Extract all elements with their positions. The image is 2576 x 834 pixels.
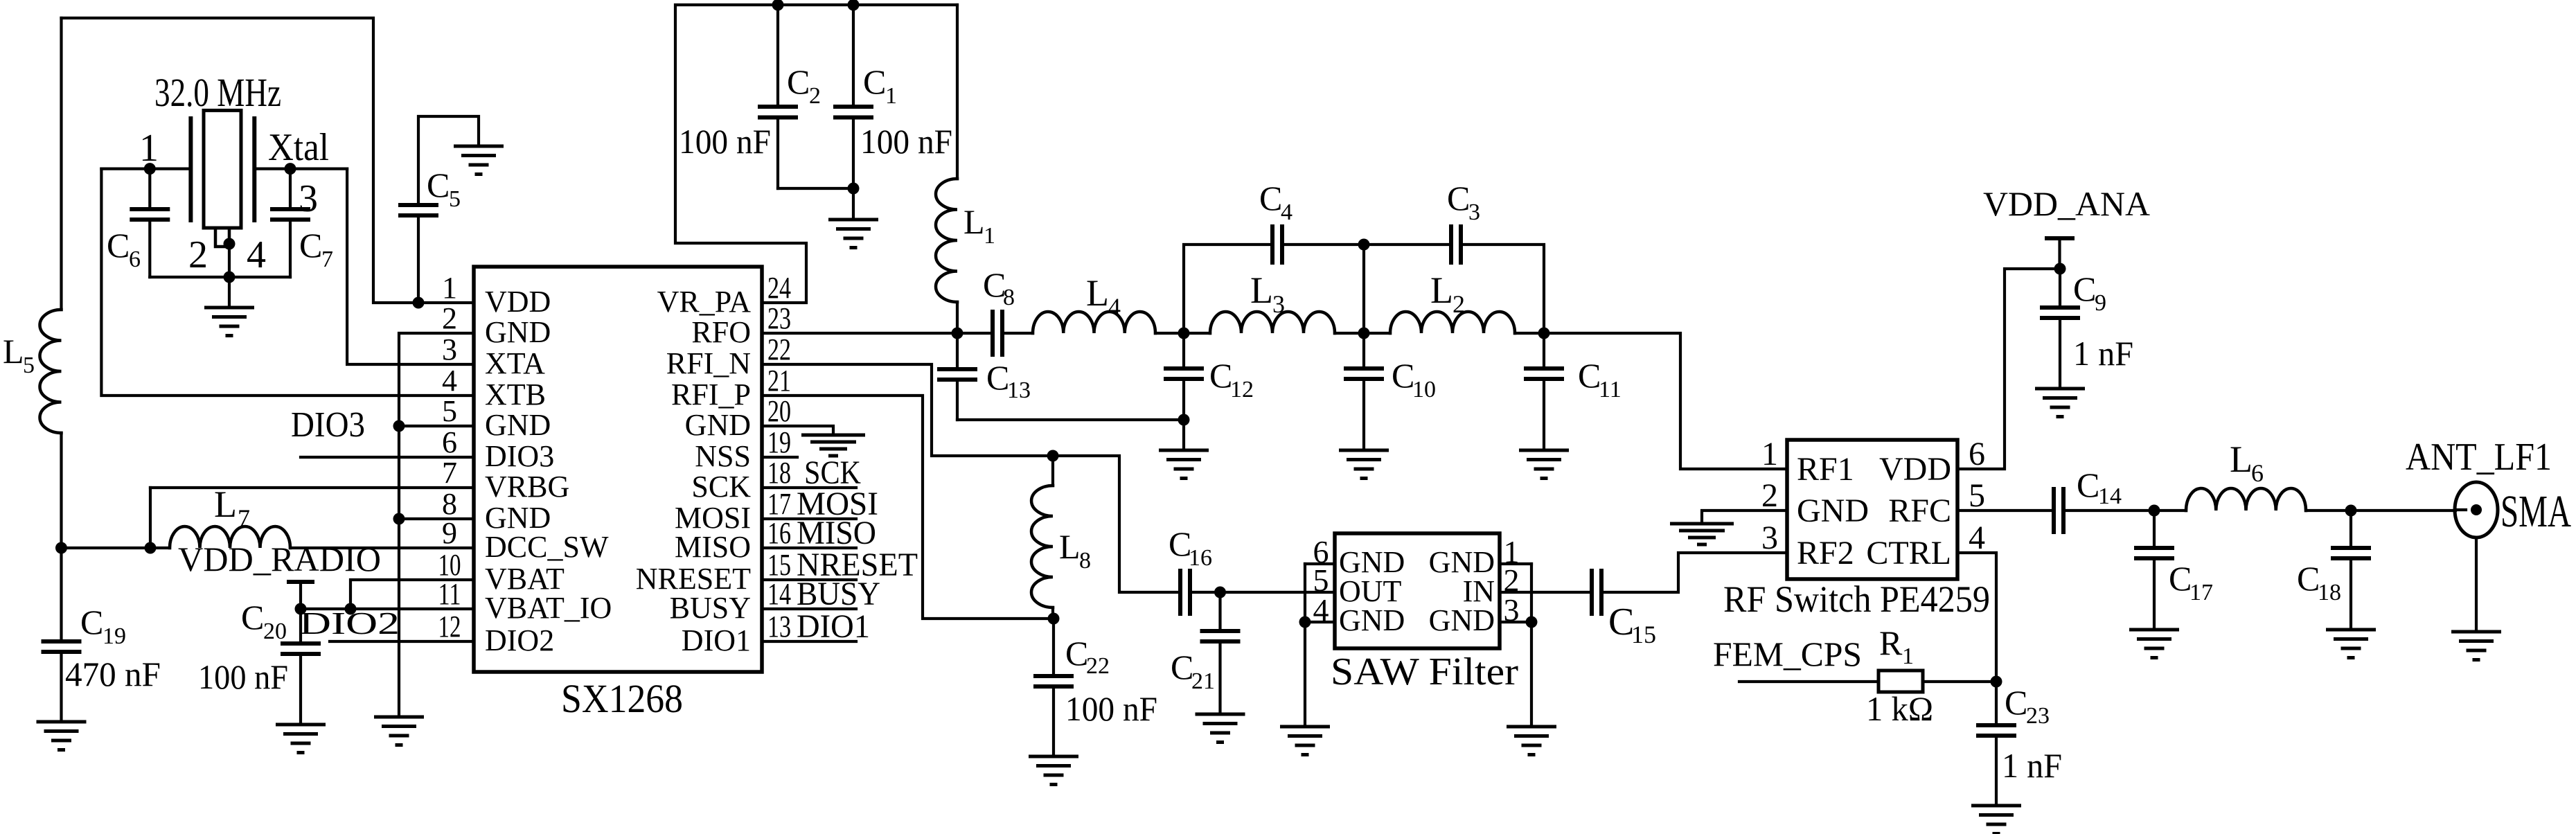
svg-text:SCK: SCK <box>691 470 751 504</box>
capacitor C23 1 nF <box>1995 682 1998 725</box>
wire VBAT pin 10 <box>350 580 474 609</box>
junction node B <box>1358 328 1370 339</box>
svg-text:100 nF: 100 nF <box>198 657 288 696</box>
svg-text:8: 8 <box>1079 548 1091 574</box>
capacitor C17 <box>2153 511 2156 547</box>
svg-text:18: 18 <box>767 456 791 490</box>
wire SCK stub <box>762 486 856 489</box>
svg-text:C: C <box>107 226 130 265</box>
svg-text:21: 21 <box>767 364 791 398</box>
svg-text:9: 9 <box>442 516 457 550</box>
svg-text:2: 2 <box>442 301 457 335</box>
svg-text:XTA: XTA <box>485 346 545 380</box>
wire FEM_CPS <box>1739 680 1877 683</box>
svg-text:DIO1: DIO1 <box>682 623 751 657</box>
crystal X1 node 3 wire <box>254 168 347 170</box>
svg-text:RFC: RFC <box>1888 493 1951 529</box>
svg-text:ANT_LF1: ANT_LF1 <box>2406 436 2552 479</box>
svg-text:19: 19 <box>767 425 791 459</box>
wire VDD top loop from L5 to chip pin 1 <box>62 18 474 303</box>
svg-text:3: 3 <box>1272 290 1285 318</box>
capacitor C1 100 nF <box>852 5 855 106</box>
capacitor C10 <box>1362 333 1365 368</box>
junction GND bus pin5 <box>393 420 405 432</box>
svg-text:14: 14 <box>767 577 791 611</box>
svg-text:GND: GND <box>685 408 751 442</box>
svg-text:DCC_SW: DCC_SW <box>485 530 609 564</box>
wire SAW left ground <box>1304 622 1306 727</box>
wire C16 to SAW OUT pin 5 <box>1190 591 1335 594</box>
ground under C19 <box>37 722 87 750</box>
wire to crystal ground <box>228 277 231 308</box>
svg-text:C: C <box>1209 356 1232 395</box>
junction C2 top <box>772 0 784 11</box>
svg-text:C: C <box>2073 269 2096 308</box>
ground under C17 <box>2129 630 2179 658</box>
svg-text:15: 15 <box>1631 621 1656 648</box>
wire L6 to antenna <box>2306 509 2455 512</box>
svg-text:VBAT_IO: VBAT_IO <box>485 591 612 625</box>
wire L3 to node B <box>1335 332 1390 335</box>
svg-text:3: 3 <box>1504 592 1520 628</box>
wire GND pin 20 stub <box>762 426 833 434</box>
svg-text:4: 4 <box>442 364 457 398</box>
ground at C5 <box>454 146 504 175</box>
ground under C11 <box>1519 450 1569 479</box>
svg-text:L: L <box>963 202 985 241</box>
junction node B top <box>1358 239 1370 251</box>
svg-text:11: 11 <box>438 577 461 611</box>
junction node A <box>1178 328 1190 339</box>
svg-text:5: 5 <box>449 186 461 212</box>
wire RFO pin 23 <box>762 332 993 335</box>
svg-text:BUSY: BUSY <box>670 591 751 625</box>
svg-text:1 nF: 1 nF <box>2073 334 2133 373</box>
ground under crystal <box>204 308 254 336</box>
wire L2 to node C and RF1 <box>1515 333 1787 469</box>
svg-text:RF1: RF1 <box>1797 451 1854 488</box>
svg-text:C: C <box>2077 465 2099 504</box>
svg-text:1 kΩ: 1 kΩ <box>1866 689 1933 728</box>
junction node C <box>1538 328 1550 339</box>
svg-text:VDD: VDD <box>485 285 551 319</box>
capacitor C16 <box>1180 569 1190 616</box>
wire SMA to ground <box>2475 538 2478 631</box>
capacitor C14 <box>2054 487 2063 534</box>
svg-text:GND: GND <box>485 408 551 442</box>
svg-text:23: 23 <box>767 301 791 335</box>
SAW pin 4 stub <box>1305 621 1335 623</box>
svg-text:5: 5 <box>442 394 457 428</box>
junction rail/VRBG <box>145 542 157 554</box>
wire node B up <box>1362 245 1365 333</box>
svg-text:C: C <box>2005 683 2027 722</box>
svg-text:1: 1 <box>139 127 159 170</box>
svg-text:9: 9 <box>2095 290 2106 316</box>
wire VDD_RADIO rail left <box>62 547 170 549</box>
capacitor C22 100 nF <box>1052 619 1055 675</box>
junction VBAT/VBAT_IO <box>345 603 357 615</box>
svg-text:4: 4 <box>1281 199 1293 225</box>
junction C1 bottom <box>848 183 860 195</box>
SAW right bracket <box>1530 564 1533 622</box>
power tap VDD_RADIO bar <box>289 580 312 584</box>
capacitor C12 <box>1182 333 1185 368</box>
svg-text:5: 5 <box>23 353 35 378</box>
svg-text:C: C <box>1171 648 1193 686</box>
wire node A up to C4 <box>1184 245 1272 333</box>
wire pin5 GND stub <box>399 425 474 427</box>
SAW pin 6 stub <box>1305 562 1335 565</box>
capacitor C6 <box>148 169 151 208</box>
svg-text:BUSY: BUSY <box>797 576 880 612</box>
capacitor C5 <box>417 216 420 303</box>
capacitor C20 100 nF <box>299 609 302 643</box>
connector ANT_LF1 SMA <box>2455 482 2498 538</box>
wire SAW IN pin 2 <box>1500 591 1592 594</box>
svg-text:L: L <box>1250 269 1273 311</box>
svg-text:C: C <box>787 62 810 101</box>
svg-text:3: 3 <box>1761 520 1778 556</box>
junction GND bus pin8 <box>393 513 405 525</box>
wire VRBG to VDD_RADIO rail <box>149 488 152 548</box>
svg-text:100 nF: 100 nF <box>679 122 771 161</box>
ground under C20 <box>276 725 326 753</box>
svg-text:GND: GND <box>1797 493 1869 529</box>
svg-text:2: 2 <box>1761 477 1778 514</box>
junction C20 node <box>295 603 307 615</box>
svg-text:8: 8 <box>1003 285 1015 310</box>
wire MISO stub <box>762 547 856 549</box>
SAW left bracket <box>1304 564 1306 622</box>
junction case/ground <box>224 272 236 283</box>
capacitor C7 <box>289 169 292 208</box>
inductor L6 <box>2186 488 2306 511</box>
svg-text:C: C <box>427 166 450 204</box>
svg-text:32.0 MHz: 32.0 MHz <box>154 70 281 115</box>
svg-text:GND: GND <box>1429 603 1495 637</box>
svg-text:DIO2: DIO2 <box>299 605 400 641</box>
svg-text:SX1268: SX1268 <box>561 676 683 721</box>
junction L8 top <box>1047 450 1059 462</box>
wire R1 to CTRL node <box>1923 680 1996 683</box>
svg-text:100 nF: 100 nF <box>1065 689 1157 728</box>
svg-text:4: 4 <box>1108 293 1121 321</box>
wire SAW right ground <box>1530 622 1533 727</box>
svg-text:C: C <box>1447 179 1470 218</box>
svg-text:C: C <box>2297 559 2320 598</box>
wire C3 to node C <box>1461 245 1544 333</box>
svg-text:12: 12 <box>438 610 461 644</box>
svg-text:C: C <box>1065 634 1088 673</box>
svg-text:1: 1 <box>1761 436 1778 472</box>
svg-text:RF Switch PE4259: RF Switch PE4259 <box>1723 578 1990 620</box>
inductor L5 <box>39 310 61 433</box>
wire RFI_P pin 21 to L8 bottom <box>762 396 1054 619</box>
crystal X1 32.0 MHz <box>190 116 254 222</box>
svg-text:2: 2 <box>809 83 821 109</box>
wire NRESET stub <box>762 578 856 581</box>
capacitor C15 <box>1592 569 1601 616</box>
wire U3 VDD pin 6 <box>1957 269 2060 469</box>
svg-text:17: 17 <box>2189 580 2213 605</box>
svg-text:4: 4 <box>247 233 266 276</box>
wire U3 RFC pin 5 <box>1957 509 2054 512</box>
svg-text:2: 2 <box>1453 290 1465 318</box>
wire GND bus pins 2/5/8 <box>399 333 474 717</box>
junction C12 bottom <box>1178 414 1190 426</box>
svg-text:L: L <box>214 483 237 525</box>
crystal case junction <box>224 238 236 250</box>
capacitor C13 <box>956 333 959 369</box>
capacitor C11 <box>1543 333 1545 368</box>
wire node3 to XTA pin 3 <box>347 169 474 364</box>
resistor R1 1 kOhm <box>1878 671 1923 692</box>
junction L8 bottom <box>1048 613 1060 625</box>
svg-text:DIO3: DIO3 <box>485 439 554 473</box>
svg-text:14: 14 <box>2098 483 2122 509</box>
svg-text:5: 5 <box>1969 477 1985 514</box>
svg-text:DIO3: DIO3 <box>291 405 365 445</box>
wire node1 to XTB pin 4 <box>101 169 474 396</box>
svg-text:100 nF: 100 nF <box>860 122 952 161</box>
capacitor C9 1 nF <box>2059 269 2061 307</box>
inductor L4 <box>1033 312 1155 333</box>
svg-text:GND: GND <box>485 315 551 349</box>
svg-text:7: 7 <box>442 456 457 490</box>
svg-text:SAW Filter: SAW Filter <box>1331 650 1518 693</box>
svg-text:DIO2: DIO2 <box>485 623 554 657</box>
RF switch U3 PE4259 body <box>1787 440 1957 579</box>
ground at pin 20 <box>801 435 865 456</box>
wire C4 to C3 <box>1282 243 1451 246</box>
wire MOSI stub <box>762 517 856 520</box>
crystal X1 node 1 wire <box>101 168 190 170</box>
svg-text:VDD: VDD <box>1879 451 1951 488</box>
ground under C12 <box>1159 450 1209 479</box>
crystal pin 2/4 case tab <box>215 228 229 247</box>
svg-text:18: 18 <box>2318 580 2341 605</box>
junction VDD_ANA node <box>2054 263 2066 275</box>
svg-text:22: 22 <box>1086 653 1110 679</box>
svg-text:VDD_ANA: VDD_ANA <box>1983 184 2150 223</box>
svg-text:3: 3 <box>1468 199 1480 225</box>
svg-text:1: 1 <box>984 223 995 249</box>
svg-text:L: L <box>2230 438 2253 480</box>
svg-text:MISO: MISO <box>675 530 751 564</box>
wire VRBG pin 7 <box>150 486 474 489</box>
svg-text:C: C <box>80 603 103 641</box>
capacitor C21 <box>1218 592 1221 630</box>
svg-text:11: 11 <box>1599 377 1622 402</box>
svg-text:1 nF: 1 nF <box>2002 746 2062 785</box>
wire NSS pin 19 stub <box>762 456 797 459</box>
wire VR_PA pin 24 to top rail <box>675 5 957 303</box>
svg-text:6: 6 <box>442 425 457 459</box>
svg-text:21: 21 <box>1191 668 1215 694</box>
ground under SAW left <box>1280 727 1330 755</box>
capacitor C8 <box>993 310 1002 357</box>
junction SAW pin3/ground <box>1526 616 1538 628</box>
ground under SMA <box>2451 632 2501 660</box>
svg-text:C: C <box>2169 559 2192 598</box>
svg-text:10: 10 <box>1412 377 1436 402</box>
svg-text:FEM_CPS: FEM_CPS <box>1713 635 1862 673</box>
svg-text:DIO1: DIO1 <box>797 608 870 645</box>
junction C1 top <box>848 0 860 11</box>
wire left vertical above L5 <box>60 18 62 310</box>
inductor L7 <box>170 526 290 548</box>
capacitor C2 100 nF <box>776 5 779 106</box>
ground under C23 <box>1971 806 2021 834</box>
svg-text:13: 13 <box>1007 378 1031 403</box>
svg-text:20: 20 <box>263 619 287 644</box>
inductor L1 <box>956 5 959 179</box>
node 3 junction <box>285 163 296 175</box>
wire pin8 GND stub <box>399 517 474 520</box>
svg-text:19: 19 <box>103 623 126 649</box>
capacitor C3 <box>1451 224 1461 265</box>
wire C15 to RF2 pin 3 <box>1601 553 1787 592</box>
IC U1 SX1268 body <box>474 267 762 672</box>
svg-text:C: C <box>299 226 322 265</box>
wire C14 to L6 <box>2063 509 2186 512</box>
wire C13 bottom to C12 bottom <box>957 418 1184 421</box>
wire left vertical below L5 <box>60 433 62 548</box>
svg-text:RFI_P: RFI_P <box>671 378 751 411</box>
junction rail/L5/C19 <box>55 542 67 554</box>
svg-text:6: 6 <box>129 247 141 272</box>
power tap VDD_ANA bar <box>2047 236 2072 240</box>
capacitor C19 470 nF <box>60 548 62 641</box>
svg-text:16: 16 <box>767 516 791 550</box>
svg-text:1: 1 <box>442 271 457 305</box>
ground under C18 <box>2326 630 2376 658</box>
svg-text:RF2: RF2 <box>1797 535 1854 571</box>
wire U3 CTRL pin 4 <box>1957 553 1996 682</box>
svg-text:C: C <box>241 598 264 637</box>
svg-text:NSS: NSS <box>695 439 751 473</box>
wire crystal case to ground rail <box>228 244 231 277</box>
junction C18 top <box>2345 505 2357 517</box>
svg-text:2: 2 <box>188 233 208 276</box>
svg-text:RFI_N: RFI_N <box>666 346 751 380</box>
ground under C1 <box>828 220 878 248</box>
wire U3 GND pin 2 <box>1702 511 1787 522</box>
svg-text:470 nF: 470 nF <box>65 655 161 693</box>
svg-text:SMA: SMA <box>2501 486 2571 537</box>
capacitor C18 <box>2350 511 2352 547</box>
wire C8 to L4 <box>1002 332 1033 335</box>
svg-text:3: 3 <box>442 332 457 366</box>
svg-text:3: 3 <box>299 177 318 220</box>
wire VBAT_IO pin 11 <box>301 607 474 610</box>
wire RFI_N pin 22 to L8 top <box>762 364 1180 592</box>
svg-text:RFO: RFO <box>691 315 751 349</box>
wire BUSY stub <box>762 607 856 610</box>
svg-text:L: L <box>1059 527 1081 566</box>
junction C5/VDD <box>413 297 425 309</box>
SAW filter U2 body <box>1335 533 1500 648</box>
junction C21 top <box>1214 587 1226 598</box>
svg-text:C: C <box>863 62 886 101</box>
node 1 junction <box>144 163 156 175</box>
svg-text:L: L <box>3 332 24 371</box>
wire DIO2 pin 12 <box>330 640 474 643</box>
svg-text:4: 4 <box>1313 592 1329 628</box>
ground under C22 <box>1029 756 1078 785</box>
svg-text:Xtal: Xtal <box>268 126 329 169</box>
ground under C9 <box>2035 389 2085 417</box>
svg-text:C: C <box>1392 356 1414 395</box>
wire DIO1 stub <box>762 640 856 643</box>
svg-text:L: L <box>1086 272 1109 314</box>
svg-text:24: 24 <box>767 271 791 305</box>
wire L7 to DCC_SW pin 9 <box>290 547 474 549</box>
svg-text:12: 12 <box>1230 377 1254 402</box>
svg-text:VR_PA: VR_PA <box>657 285 752 319</box>
junction SAW pin4/ground <box>1299 616 1311 628</box>
svg-text:4: 4 <box>1969 520 1985 556</box>
SAW pin 1 stub <box>1500 562 1531 565</box>
svg-text:23: 23 <box>2026 703 2050 729</box>
ground under chip <box>374 717 424 745</box>
wire L4 to node A <box>1155 332 1210 335</box>
junction L1/RFO <box>952 328 963 339</box>
svg-text:16: 16 <box>1189 545 1212 571</box>
svg-text:7: 7 <box>321 247 333 272</box>
ground under C21 <box>1196 714 1245 743</box>
svg-text:R: R <box>1879 623 1903 662</box>
svg-text:XTB: XTB <box>485 378 546 411</box>
svg-text:GND: GND <box>1339 603 1405 637</box>
inductor L8 <box>1051 456 1054 486</box>
svg-text:C: C <box>1578 356 1601 395</box>
svg-text:22: 22 <box>767 332 791 366</box>
svg-text:13: 13 <box>767 610 791 644</box>
svg-text:20: 20 <box>767 394 791 428</box>
svg-text:C: C <box>986 358 1009 397</box>
wire xtal bottom rail <box>150 276 290 278</box>
svg-text:VRBG: VRBG <box>485 470 569 504</box>
inductor L3 <box>1210 312 1335 333</box>
wire C2 to C1 bottom <box>778 187 853 190</box>
junction C17 top <box>2149 505 2160 517</box>
svg-text:VDD_RADIO: VDD_RADIO <box>178 540 381 578</box>
svg-text:L: L <box>1430 269 1453 311</box>
ground under C10 <box>1339 450 1389 479</box>
inductor L2 <box>1390 312 1515 333</box>
svg-text:1: 1 <box>885 83 897 109</box>
svg-text:1: 1 <box>1902 644 1914 669</box>
ground under SAW right <box>1507 727 1556 755</box>
svg-text:C: C <box>1259 179 1282 218</box>
svg-text:C: C <box>1608 601 1634 644</box>
junction CTRL/C23 <box>1991 676 2002 688</box>
svg-text:6: 6 <box>2251 459 2264 487</box>
wire DIO3 pin 6 <box>301 456 474 459</box>
svg-text:7: 7 <box>238 504 250 532</box>
svg-text:CTRL: CTRL <box>1866 535 1951 571</box>
ground at U3 pin 2 <box>1670 524 1734 544</box>
svg-text:6: 6 <box>1969 436 1985 472</box>
capacitor C4 <box>1272 224 1282 265</box>
SAW pin 3 stub <box>1500 621 1531 623</box>
